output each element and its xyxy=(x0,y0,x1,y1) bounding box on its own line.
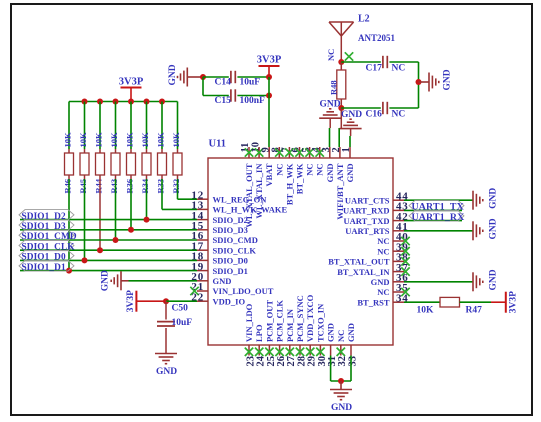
svg-text:UART_RTS: UART_RTS xyxy=(345,226,390,236)
capacitor C14 xyxy=(231,71,235,83)
svg-text:NC: NC xyxy=(336,330,346,342)
U11 pin 21 VIN_LDO_OUT xyxy=(191,281,273,296)
wire right leg C17-C16 xyxy=(418,62,420,108)
resistor R48 pins xyxy=(340,62,342,108)
U11 pin 14 SDIO_D2 xyxy=(191,210,248,225)
wire R45 down xyxy=(84,179,86,260)
no-ERC flag pin 29 xyxy=(306,348,314,356)
port SDIO1_CMD xyxy=(19,230,74,241)
svg-text:3V3P: 3V3P xyxy=(257,55,282,66)
U11 pin 11 WL_XTAL_OUT xyxy=(240,143,254,228)
svg-text:NC: NC xyxy=(392,64,406,74)
svg-text:GND: GND xyxy=(168,64,178,85)
svg-text:UART_CTS: UART_CTS xyxy=(345,195,390,205)
svg-text:SDIO1_CLK: SDIO1_CLK xyxy=(22,242,76,252)
wire SDIO1_D1 xyxy=(20,270,197,272)
wire rail to R45 xyxy=(84,102,86,150)
no-ERC flag pin 39 xyxy=(401,247,409,255)
wire pin 36 to GND xyxy=(404,281,473,283)
U11 pin 4 NC xyxy=(311,147,325,176)
svg-text:10K: 10K xyxy=(94,132,104,148)
junction on pull-up rail xyxy=(144,99,150,105)
svg-text:SDIO_CMD: SDIO_CMD xyxy=(213,235,258,245)
junction SDIO1_D0 xyxy=(82,257,88,263)
wire SDIO1_D3 xyxy=(20,229,197,231)
wire 3V3P pull-up rail xyxy=(69,101,178,103)
svg-text:R47: R47 xyxy=(466,306,483,316)
svg-text:R34: R34 xyxy=(140,178,150,193)
svg-text:10K: 10K xyxy=(171,132,181,148)
svg-text:BT_WK: BT_WK xyxy=(295,163,305,194)
svg-text:3V3P: 3V3P xyxy=(119,77,144,88)
svg-text:TCXO_IN: TCXO_IN xyxy=(315,303,325,342)
svg-text:UART_RXD: UART_RXD xyxy=(343,206,389,216)
U11 pin 28 PCM_SYNC xyxy=(295,295,307,366)
wire rail to R44 xyxy=(99,102,101,150)
svg-text:SDIO_D1: SDIO_D1 xyxy=(213,266,248,276)
wire R34 down xyxy=(146,179,148,220)
U11 pin 37 BT_XTAL_IN xyxy=(337,262,408,277)
wire C16 to R48 junction xyxy=(341,107,381,109)
junction SDIO1_D3 xyxy=(128,227,134,233)
wire R32 down xyxy=(177,179,179,199)
svg-text:VIN_LDO: VIN_LDO xyxy=(244,303,254,342)
U11 pin 3 GND xyxy=(321,147,335,182)
svg-text:3V3P: 3V3P xyxy=(508,291,518,313)
ground (pin 3) xyxy=(319,100,341,129)
U11 pin 17 SDIO_CLK xyxy=(191,240,256,255)
wire R47 to 3V3P xyxy=(460,301,492,303)
wire antenna node to C17 xyxy=(341,61,381,63)
port SDIO1_D3 xyxy=(19,220,74,231)
junction 3V3P / C14 / VBAT xyxy=(266,74,272,80)
no-ERC flag pin 28 xyxy=(296,348,304,356)
svg-text:GND: GND xyxy=(101,270,111,291)
wire GND to pin 20 xyxy=(129,280,198,282)
IC U11 body xyxy=(208,158,393,345)
svg-text:GND: GND xyxy=(319,100,340,110)
junction antenna / R48 / C17 xyxy=(338,59,344,65)
wire R33 to pin 13 xyxy=(162,208,197,210)
wire SDIO1_D2 xyxy=(20,219,197,221)
U11 pin 25 PCM_OUT xyxy=(264,300,276,367)
resistor R48 xyxy=(337,70,346,99)
svg-text:10K: 10K xyxy=(78,132,88,148)
resistor R45 xyxy=(80,153,89,175)
wire C15 to VBAT node xyxy=(237,95,269,97)
wire rail to R43 xyxy=(115,102,117,150)
resistor R34 xyxy=(142,153,151,175)
svg-text:PCM_OUT: PCM_OUT xyxy=(264,300,274,342)
U11 pin 29 VDD_TXCO xyxy=(305,294,317,366)
junction on pull-up rail xyxy=(97,99,103,105)
svg-text:NC: NC xyxy=(315,164,325,176)
svg-text:SDIO1_D1: SDIO1_D1 xyxy=(22,263,66,273)
U11 pin 20 GND xyxy=(191,271,231,286)
power port 3V3P (BT_RST) xyxy=(491,291,518,313)
svg-text:VDD_TXCO: VDD_TXCO xyxy=(305,294,315,342)
svg-text:PCM_CLK: PCM_CLK xyxy=(275,300,285,342)
svg-text:GND: GND xyxy=(326,323,336,342)
power port 3V3P (VBAT) xyxy=(257,55,282,78)
svg-text:R36: R36 xyxy=(125,179,135,194)
no-ERC flag pin 5 xyxy=(305,148,313,156)
svg-text:C14: C14 xyxy=(215,78,232,88)
wire to C14 xyxy=(203,76,229,78)
junction bottom GND xyxy=(338,378,344,384)
wire rail to R34 xyxy=(146,102,148,150)
no-ERC flag pin 23 xyxy=(245,348,253,356)
port UART1_TX xyxy=(409,200,464,211)
power port 3V3P (VDD_IO) xyxy=(126,290,166,312)
svg-text:VIN_LDO_OUT: VIN_LDO_OUT xyxy=(213,286,274,296)
junction on pull-up rail xyxy=(159,99,165,105)
junction on pull-up rail xyxy=(128,99,134,105)
svg-text:WL_H_WK_WAKE: WL_H_WK_WAKE xyxy=(213,205,288,215)
ground (C16/C17) xyxy=(429,73,439,92)
no-ERC flag pin 27 xyxy=(286,348,294,356)
port SDIO1_D2 xyxy=(19,210,74,221)
ground (pin 41) xyxy=(473,221,483,240)
svg-text:LPO: LPO xyxy=(254,324,264,342)
U11 pin 15 SDIO_D3 xyxy=(191,220,248,235)
svg-text:PCM_IN: PCM_IN xyxy=(285,308,295,342)
junction GND / C14 / C15 xyxy=(200,74,206,80)
U11 pin 38 BT_XTAL_OUT xyxy=(328,252,408,267)
power port 3V3P (pull-up rail) xyxy=(119,77,144,102)
U11 pin 2 WIFI/BT_ANT xyxy=(331,147,345,220)
svg-text:10uF: 10uF xyxy=(240,78,261,88)
svg-text:1: 1 xyxy=(341,147,352,152)
no-ERC flag pin 21 xyxy=(190,287,198,295)
wire R33 down xyxy=(161,179,163,209)
svg-text:SDIO1_D2: SDIO1_D2 xyxy=(22,212,66,222)
wire SDIO1_CLK xyxy=(20,249,197,251)
svg-text:10K: 10K xyxy=(156,132,166,148)
svg-text:R48: R48 xyxy=(328,80,338,95)
svg-text:SDIO1_D0: SDIO1_D0 xyxy=(22,253,66,263)
svg-text:NC: NC xyxy=(274,164,284,176)
svg-text:ANT2051: ANT2051 xyxy=(358,33,396,43)
wire joining pins 31/33 xyxy=(331,380,351,382)
svg-text:SDIO_D3: SDIO_D3 xyxy=(213,225,248,235)
capacitor C50 pins xyxy=(165,301,167,353)
U11 pin 34 BT_RST xyxy=(357,292,408,307)
no-ERC flag pin 26 xyxy=(275,348,283,356)
svg-text:BT_XTAL_IN: BT_XTAL_IN xyxy=(337,267,390,277)
no-ERC flag pin 7 xyxy=(285,148,293,156)
resistor R47 xyxy=(440,297,460,307)
junction SDIO1_CMD xyxy=(113,237,119,243)
wire pin 41 to GND xyxy=(404,230,473,232)
resistor R44 xyxy=(96,153,105,175)
svg-text:GND: GND xyxy=(341,110,362,120)
svg-text:BT_RST: BT_RST xyxy=(357,297,389,307)
svg-text:NC: NC xyxy=(326,49,336,61)
wire pin 44 to GND xyxy=(404,199,473,201)
U11 pin 27 PCM_IN xyxy=(285,308,297,366)
svg-text:GND: GND xyxy=(489,218,499,239)
wire R36 down xyxy=(130,179,132,230)
wire rail to R36 xyxy=(130,102,132,150)
wire pin 34 to R47 xyxy=(404,301,440,303)
svg-text:10K: 10K xyxy=(109,132,119,148)
wire to C15 xyxy=(203,95,229,97)
no-ERC flag pin 10 xyxy=(255,148,263,156)
svg-text:R45: R45 xyxy=(78,179,88,194)
U11 pin 9 VBAT xyxy=(260,147,274,187)
U11 pin 5 NC xyxy=(301,147,315,176)
svg-text:VDD_IO: VDD_IO xyxy=(213,296,246,306)
junction SDIO1_D1 xyxy=(66,268,72,274)
no-ERC flag pin 32 xyxy=(337,348,345,356)
U11 pin 26 PCM_CLK xyxy=(275,300,287,367)
U11 pin 1 GND xyxy=(341,147,355,182)
no-ERC flag pin 38 xyxy=(401,257,409,265)
wire R46 down xyxy=(68,179,70,271)
no-ERC flag pin 25 xyxy=(265,348,273,356)
wire pin 43 to port UART1_TX xyxy=(404,209,462,211)
U11 pin 42 UART_TXD xyxy=(344,211,409,226)
U11 pin 6 BT_WK xyxy=(291,147,305,194)
wire rail to R32 xyxy=(177,102,179,150)
ground (pin 20) xyxy=(111,271,121,290)
wire R48 junction to pin 2 xyxy=(340,108,342,128)
no-ERC flag pin 11 xyxy=(245,148,253,156)
U11 pin 43 UART_RXD xyxy=(343,201,409,216)
port UART1_RX xyxy=(409,211,464,222)
capacitor C16 xyxy=(383,102,387,114)
wire pin 42 to port UART1_RX xyxy=(404,220,462,222)
svg-text:UART1_RX: UART1_RX xyxy=(412,212,465,223)
no-ERC flag pin 6 xyxy=(295,148,303,156)
svg-text:L2: L2 xyxy=(358,14,370,25)
U11 pin 24 LPO xyxy=(254,324,266,366)
wire right leg to C16 xyxy=(389,107,418,109)
port SDIO1_D1 xyxy=(19,261,74,272)
svg-text:GND: GND xyxy=(325,164,335,183)
svg-text:BT_H_WK: BT_H_WK xyxy=(284,163,294,205)
U11 pin 10 WL_XTAL_IN xyxy=(250,142,264,219)
no-ERC flag antenna node xyxy=(345,52,353,60)
svg-text:C50: C50 xyxy=(172,304,189,314)
port SDIO1_CLK xyxy=(19,240,74,251)
svg-text:GND: GND xyxy=(346,323,356,342)
svg-text:C16: C16 xyxy=(366,110,383,120)
wire rail to R33 xyxy=(161,102,163,150)
wire pin 33 down xyxy=(350,356,352,382)
svg-text:R46: R46 xyxy=(63,179,73,194)
svg-text:GND: GND xyxy=(489,269,499,290)
capacitor C15 xyxy=(231,89,235,101)
svg-text:GND: GND xyxy=(489,188,499,209)
svg-text:100nF: 100nF xyxy=(240,96,266,106)
wire R44 to SDIO1_CLK xyxy=(99,179,101,250)
antenna L2 ANT2051 xyxy=(329,14,396,63)
svg-text:NC: NC xyxy=(377,236,389,246)
svg-text:GND: GND xyxy=(443,69,453,90)
svg-text:SDIO_CLK: SDIO_CLK xyxy=(213,245,257,255)
junction R48 / C16 / pin2 wire xyxy=(338,105,344,111)
svg-text:33: 33 xyxy=(347,356,358,367)
U11 pin 23 VIN_LDO xyxy=(244,303,256,366)
U11 pin 12 WL_REG_ON xyxy=(191,189,267,204)
ground (pin 1) xyxy=(340,110,363,136)
wire pin 31 down xyxy=(330,356,332,382)
svg-text:GND: GND xyxy=(345,164,355,183)
resistor R46 xyxy=(65,153,74,175)
wire rail to R46 xyxy=(68,102,70,150)
wire down to C15 xyxy=(202,77,204,96)
svg-text:C15: C15 xyxy=(215,96,232,106)
U11 pin 31 GND xyxy=(326,323,338,366)
U11 pin 41 UART_RTS xyxy=(345,221,408,236)
junction C15 / VBAT wire xyxy=(266,93,272,99)
svg-text:R44: R44 xyxy=(94,178,104,193)
svg-text:10K: 10K xyxy=(125,132,135,148)
capacitor C50 xyxy=(157,322,175,326)
U11 pin 16 SDIO_CMD xyxy=(191,230,257,245)
svg-text:WL_REG_ON: WL_REG_ON xyxy=(213,194,268,204)
no-ERC flag pin 4 xyxy=(316,148,324,156)
U11 pin 39 NC xyxy=(377,241,408,256)
junction SDIO1_CLK xyxy=(97,247,103,253)
svg-text:NC: NC xyxy=(392,110,406,120)
svg-text:BT_XTAL_OUT: BT_XTAL_OUT xyxy=(328,257,390,267)
junction on pull-up rail xyxy=(113,99,119,105)
svg-text:VBAT: VBAT xyxy=(264,163,274,186)
ground (below C50) xyxy=(155,354,177,364)
svg-text:C17: C17 xyxy=(366,64,383,74)
resistor R33 xyxy=(158,153,167,175)
U11 pin 44 UART_CTS xyxy=(345,190,409,205)
no-ERC flag pin 8 xyxy=(275,148,283,156)
svg-text:UART_TXD: UART_TXD xyxy=(344,216,390,226)
port SDIO1_D0 xyxy=(19,250,74,261)
svg-text:10K: 10K xyxy=(140,132,150,148)
wire SDIO1_CMD xyxy=(20,239,197,241)
no-ERC flag pin 40 xyxy=(401,237,409,245)
junction SDIO1_D2 xyxy=(144,217,150,223)
svg-text:NC: NC xyxy=(377,246,389,256)
U11 pin 40 NC xyxy=(377,231,408,246)
no-ERC flag pin 35 xyxy=(401,288,409,296)
U11 pin 13 WL_H_WK_WAKE xyxy=(191,200,287,215)
resistor R43 xyxy=(111,153,120,175)
U11 pin 18 SDIO_D0 xyxy=(191,251,248,266)
junction VDD_IO / C50 xyxy=(163,298,169,304)
junction GND tap xyxy=(416,79,422,85)
svg-text:NC: NC xyxy=(305,164,315,176)
svg-text:R32: R32 xyxy=(171,179,181,194)
wire 3V3P to pin 22 xyxy=(166,300,197,302)
U11 pin 32 NC xyxy=(336,330,348,367)
ground (pins 31/33) xyxy=(330,390,352,400)
ground (C14/C15) xyxy=(178,68,188,87)
wire R43 down xyxy=(115,179,117,240)
svg-text:10K: 10K xyxy=(63,132,73,148)
svg-text:R43: R43 xyxy=(109,179,119,194)
U11 pin 8 NC xyxy=(271,147,285,176)
capacitor C17 xyxy=(383,56,387,68)
svg-text:SDIO_D2: SDIO_D2 xyxy=(213,215,248,225)
svg-text:GND: GND xyxy=(156,367,177,377)
ground (pin 36) xyxy=(473,272,483,291)
svg-text:SDIO1_D3: SDIO1_D3 xyxy=(22,222,66,232)
U11 pin 36 GND xyxy=(371,272,409,287)
svg-text:GND: GND xyxy=(213,276,232,286)
wire C17 to right leg xyxy=(389,61,418,63)
U11 pin 22 VDD_IO xyxy=(191,291,245,306)
svg-text:GND: GND xyxy=(371,277,390,287)
no-ERC flag pin 24 xyxy=(255,348,263,356)
junction on pull-up rail xyxy=(82,99,88,105)
svg-text:PCM_SYNC: PCM_SYNC xyxy=(295,295,305,342)
wire VBAT down to pin 9 xyxy=(268,77,270,147)
U11 pin 7 BT_H_WK xyxy=(281,147,295,205)
U11 pin 19 SDIO_D1 xyxy=(191,261,248,276)
wire R32 to pin 12 xyxy=(178,198,198,200)
svg-text:10K: 10K xyxy=(417,306,435,316)
resistor R32 xyxy=(173,153,182,175)
svg-text:3V3P: 3V3P xyxy=(126,290,136,312)
svg-text:SDIO_D0: SDIO_D0 xyxy=(213,256,248,266)
U11 pin 33 GND xyxy=(346,323,358,366)
no-ERC flag pin 30 xyxy=(316,348,324,356)
ground (pin 44) xyxy=(473,191,483,210)
svg-text:10uF: 10uF xyxy=(172,318,193,328)
no-ERC flag pin 37 xyxy=(401,267,409,275)
svg-text:R33: R33 xyxy=(156,179,166,194)
svg-text:GND: GND xyxy=(331,403,352,413)
U11 pin 35 NC xyxy=(377,282,408,297)
resistor R36 xyxy=(127,153,136,175)
svg-text:NC: NC xyxy=(377,287,389,297)
svg-text:U11: U11 xyxy=(209,139,227,150)
wire C14 to VBAT node xyxy=(237,76,269,78)
wire SDIO1_D0 xyxy=(20,259,197,261)
U11 pin 30 TCXO_IN xyxy=(315,303,327,367)
